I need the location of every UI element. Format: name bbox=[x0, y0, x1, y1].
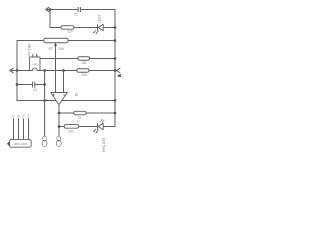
svg-text:C1: C1 bbox=[74, 12, 78, 16]
svg-text:mic: mic bbox=[33, 62, 38, 66]
LED LED1 bbox=[93, 15, 103, 34]
wire vertical x=44.6 bbox=[44, 71, 46, 137]
LED LED2 bbox=[93, 119, 105, 153]
junction op-amp input node bbox=[62, 69, 65, 72]
junction left rail y=84.5 bbox=[16, 83, 19, 86]
svg-text:P4: P4 bbox=[27, 114, 31, 118]
op-amp U1 bbox=[51, 93, 78, 105]
svg-text:220: 220 bbox=[75, 120, 80, 124]
junction rail y=100.5 bbox=[114, 99, 117, 102]
svg-text:P3: P3 bbox=[22, 114, 26, 118]
svg-text:220: 220 bbox=[68, 129, 74, 133]
svg-text:LED1: LED1 bbox=[98, 15, 102, 23]
pin header J1 bbox=[7, 114, 31, 147]
junction left rail y=70.5 bbox=[16, 69, 19, 72]
terminal arrow IN2 left bbox=[10, 68, 13, 73]
junction op-amp output node bbox=[58, 112, 61, 115]
solder lug P1 bbox=[42, 136, 47, 146]
svg-text:220: 220 bbox=[67, 29, 73, 33]
wire top net y=9.5 bbox=[46, 9, 115, 11]
svg-text:4PIN HDR: 4PIN HDR bbox=[14, 142, 27, 146]
svg-text:R2: R2 bbox=[49, 47, 53, 51]
junction dots bbox=[16, 8, 117, 128]
svg-text:o1: o1 bbox=[118, 73, 121, 77]
svg-text:MK1 mic: MK1 mic bbox=[27, 44, 31, 57]
svg-text:C2: C2 bbox=[33, 88, 37, 92]
svg-text:U1: U1 bbox=[74, 93, 78, 97]
junction node A bbox=[43, 69, 46, 72]
resistor R4 bbox=[77, 69, 89, 77]
svg-text:10k: 10k bbox=[59, 47, 65, 51]
wire y=84.5 bbox=[17, 84, 45, 86]
capacitor C1 bbox=[74, 6, 81, 16]
wire pot wiper vertical x=55.5 bbox=[55, 43, 57, 92]
terminal arrow OUT right bbox=[116, 68, 121, 77]
wire y=70.5 input net bbox=[10, 70, 115, 72]
wire y=113 bbox=[59, 112, 115, 114]
wire y=27.5 bbox=[50, 27, 115, 29]
microphone MK1 bbox=[30, 54, 40, 71]
wire y=58.5 mic out net bbox=[40, 58, 116, 60]
junction node C bbox=[43, 99, 46, 102]
junction rail y=70.5 bbox=[114, 69, 117, 72]
wire right rail x=115 bbox=[114, 10, 116, 127]
svg-text:LED 5mm: LED 5mm bbox=[102, 138, 106, 153]
potentiometer R2 bbox=[44, 38, 68, 51]
junction node B bbox=[43, 83, 46, 86]
svg-text:P2: P2 bbox=[17, 114, 21, 118]
svg-text:10k: 10k bbox=[81, 61, 87, 65]
wire op-amp right input x=63.5 bbox=[63, 71, 65, 93]
wire y=100.5 bottom net bbox=[17, 100, 115, 102]
wire left rail x=17 bbox=[16, 41, 18, 101]
solder lug P2 bbox=[56, 136, 61, 146]
terminal arrow IN1 top left bbox=[46, 7, 49, 12]
junction LED2 net node bbox=[58, 125, 61, 128]
resistor R3 bbox=[78, 57, 90, 65]
junction top arrow node bbox=[49, 8, 52, 11]
capacitor C2 bbox=[33, 81, 38, 91]
wire op-amp output x=59 bbox=[58, 105, 60, 137]
junction rail y=113 bbox=[114, 112, 117, 115]
svg-text:10k: 10k bbox=[81, 73, 87, 77]
resistor R1 bbox=[61, 26, 74, 34]
wire y=126.5 bbox=[59, 126, 115, 128]
junction rail y=58.5 bbox=[114, 57, 117, 60]
junction rail y=27.5 bbox=[114, 26, 117, 29]
wire vertical x=50 top bbox=[49, 10, 51, 28]
resistor R6 bbox=[64, 120, 80, 134]
svg-text:P1: P1 bbox=[12, 114, 16, 118]
junction rail y=40.5 bbox=[114, 39, 117, 42]
resistor R5 bbox=[74, 111, 86, 119]
wire y=40.5 mic/pot net bbox=[17, 40, 115, 42]
